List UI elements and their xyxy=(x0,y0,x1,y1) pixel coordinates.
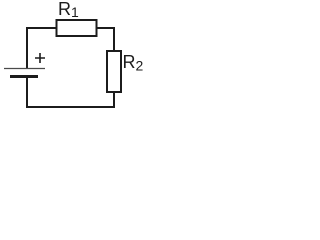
battery B1: positive plate (long thin top line) xyxy=(4,68,45,70)
svg-text:R1: R1 xyxy=(58,0,79,20)
wire: top-right horizontal from R1 right side to top-right corner xyxy=(97,27,116,29)
wire: right vertical from R2 bottom down to bottom-right corner xyxy=(113,92,115,108)
resistor R2 (box) xyxy=(107,51,121,92)
svg-text:R2: R2 xyxy=(123,52,144,74)
wire: left vertical from bottom-left corner up to battery negative plate xyxy=(26,77,28,108)
wire: right vertical from top-right corner down to R2 top xyxy=(113,27,115,51)
battery polarity label + xyxy=(35,53,45,63)
battery B1: negative plate (short thick bottom bar) xyxy=(10,75,38,78)
wire: top-left horizontal from corner to R1 left side xyxy=(26,27,57,29)
wire: bottom horizontal from bottom-right corner to bottom-left corner xyxy=(26,106,115,108)
wire: left vertical from battery positive plate up to top-left corner xyxy=(26,27,28,68)
resistor R1 (box) xyxy=(57,20,97,36)
